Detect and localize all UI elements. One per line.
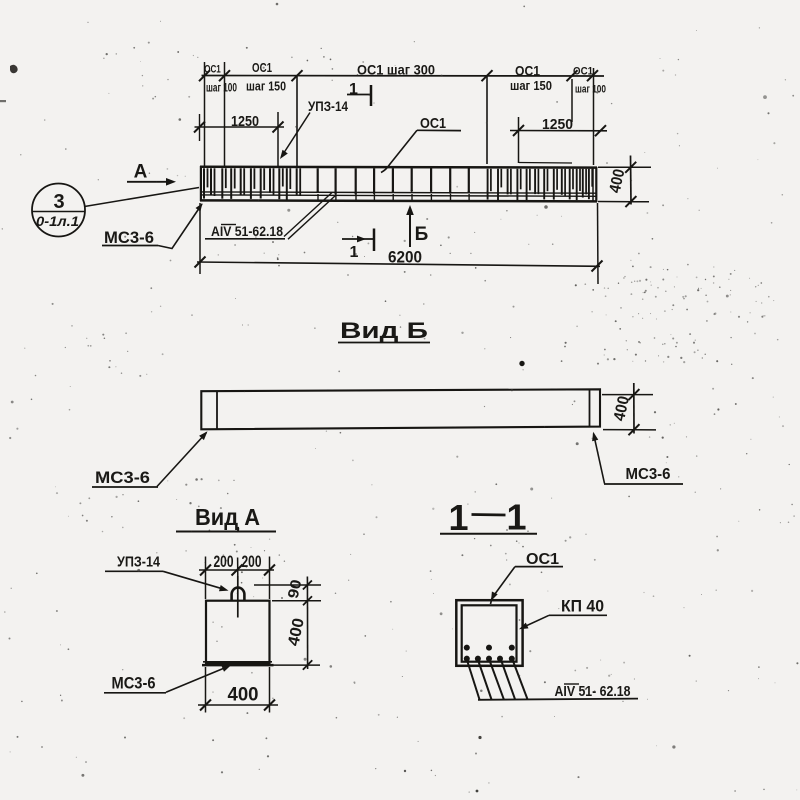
double leader to bottom rebar xyxy=(284,193,332,237)
leader from circle to beam end xyxy=(85,188,200,207)
leader MC3-6 left xyxy=(157,433,207,487)
square view A xyxy=(206,601,270,664)
dimension 1250 right line xyxy=(510,130,607,132)
svg-text:УПЗ-14: УПЗ-14 xyxy=(308,98,348,114)
extension line x224 xyxy=(224,62,226,166)
top dimension line xyxy=(202,75,605,78)
dimension 6200 xyxy=(197,262,600,266)
svg-text:Вид Б: Вид Б xyxy=(340,318,428,343)
bottom bearing plate double line xyxy=(203,661,272,663)
dimension 1250 left line xyxy=(195,126,285,128)
svg-text:ОС1: ОС1 xyxy=(252,61,272,75)
extension right x597 below beam xyxy=(597,203,600,284)
svg-text:200: 200 xyxy=(242,552,262,571)
svg-text:1: 1 xyxy=(350,244,359,261)
svg-text:МС3-6: МС3-6 xyxy=(95,468,150,487)
svg-text:Вид А: Вид А xyxy=(195,504,260,530)
beam view B end plate lines xyxy=(216,391,218,429)
outer square section xyxy=(456,600,522,666)
svg-text:УПЗ-14: УПЗ-14 xyxy=(117,554,161,571)
svg-text:шаг 150: шаг 150 xyxy=(510,79,552,93)
extension x205 bottom xyxy=(205,667,207,713)
overbar on IV xyxy=(221,224,236,226)
leader KP40 xyxy=(522,615,550,628)
svg-text:ОС1: ОС1 xyxy=(204,64,221,76)
bottom line extension right xyxy=(274,664,321,666)
dimension tick xyxy=(219,70,230,81)
svg-text:шаг 150: шаг 150 xyxy=(246,80,286,94)
leader UPZ-14 xyxy=(282,113,311,157)
view arrow B (Б) xyxy=(409,209,411,247)
svg-text:КП 40: КП 40 xyxy=(561,598,604,616)
stray ink dot xyxy=(519,361,524,366)
extension line x572 xyxy=(571,79,573,122)
dimension 400 elevation right xyxy=(598,166,651,168)
svg-text:шаг 100: шаг 100 xyxy=(575,84,606,96)
protruding strands xyxy=(467,660,480,700)
beam longitudinal rebar lines xyxy=(200,192,597,193)
svg-text:1250: 1250 xyxy=(231,113,259,130)
svg-text:1: 1 xyxy=(506,497,526,538)
comma in title xyxy=(237,527,238,532)
dimension 400 view A right xyxy=(307,607,309,669)
extension line x518 xyxy=(518,117,520,163)
faint line above beam right xyxy=(519,162,572,165)
leader OC1 section xyxy=(492,567,515,598)
extension line x593 beam right xyxy=(593,68,595,165)
dimension tick xyxy=(567,70,578,81)
stirrups right zone xyxy=(487,169,489,200)
extension left x200 below beam xyxy=(199,203,201,274)
overbar on IV section xyxy=(564,683,579,685)
rebar dots row 1 xyxy=(464,645,470,651)
svg-text:ОС1 шаг 300: ОС1 шаг 300 xyxy=(357,63,435,78)
stirrup inner square xyxy=(462,605,517,661)
svg-text:МС3-6: МС3-6 xyxy=(104,228,154,247)
strand baseline xyxy=(478,699,638,700)
svg-text:ОС1: ОС1 xyxy=(526,551,559,568)
dimension 200/200 xyxy=(199,569,274,571)
extension line x199 xyxy=(199,114,201,141)
svg-text:3: 3 xyxy=(53,191,64,213)
svg-text:АIV 51- 62.18: АIV 51- 62.18 xyxy=(555,683,631,700)
leader MC3-6 elevation xyxy=(158,204,202,249)
stirrups middle zone xyxy=(317,168,319,192)
extension x269 xyxy=(269,557,271,600)
extension line x297 xyxy=(296,76,298,166)
stirrups left zone xyxy=(203,168,205,198)
extension line x278 xyxy=(277,112,279,166)
leader UPZ-14 view A xyxy=(163,571,226,589)
svg-text:1: 1 xyxy=(448,497,468,538)
dimension 400 view B xyxy=(602,394,653,396)
extension x205 xyxy=(205,557,207,600)
svg-text:АIV 51-62.18: АIV 51-62.18 xyxy=(211,223,283,239)
beam view B outline xyxy=(201,389,600,429)
svg-text:А: А xyxy=(134,162,148,183)
dimension tick xyxy=(587,70,598,81)
extension line x204 xyxy=(204,62,206,166)
svg-text:400: 400 xyxy=(228,685,259,706)
view arrow A line xyxy=(127,181,167,183)
callout circle 3 / 0-1l.1 xyxy=(32,184,85,237)
extension x269 bottom xyxy=(269,667,271,713)
svg-text:1: 1 xyxy=(349,81,358,98)
svg-text:ОС1: ОС1 xyxy=(515,64,540,79)
leader MC3-6 right xyxy=(594,434,605,484)
dimension tick xyxy=(292,70,303,81)
svg-text:Б: Б xyxy=(415,224,429,245)
dimension 90 xyxy=(254,584,321,586)
rebar dots row 2 xyxy=(464,656,470,662)
loop axis into square xyxy=(237,576,239,618)
section mark 1 bottom xyxy=(342,238,374,240)
svg-text:шаг 100: шаг 100 xyxy=(206,83,237,95)
distinct stray marks xyxy=(10,65,18,73)
beam elevation outline xyxy=(200,166,597,169)
svg-text:1250: 1250 xyxy=(542,116,573,133)
svg-text:ОС1: ОС1 xyxy=(420,115,446,132)
extension line x487 xyxy=(486,76,488,164)
dimension tick xyxy=(199,70,210,81)
svg-text:ОС1: ОС1 xyxy=(573,66,593,78)
lifting loop UPZ-14 xyxy=(232,588,245,601)
dimension tick xyxy=(482,70,493,81)
leader MC3-6 view A xyxy=(166,667,228,693)
svg-text:0-1л.1: 0-1л.1 xyxy=(36,214,79,229)
svg-text:6200: 6200 xyxy=(388,248,422,267)
svg-text:МС3-6: МС3-6 xyxy=(112,674,156,693)
svg-text:МС3-6: МС3-6 xyxy=(626,466,671,483)
extension center axis xyxy=(237,558,239,577)
